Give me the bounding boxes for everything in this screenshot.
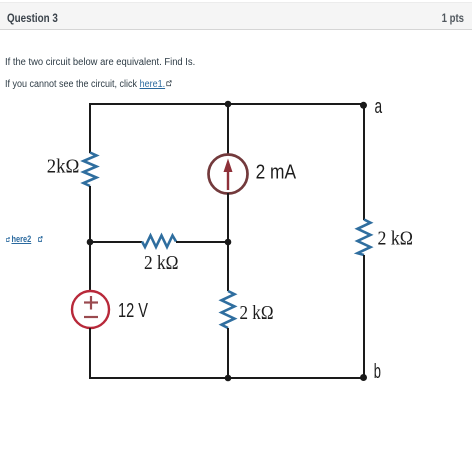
wire right lower xyxy=(363,255,365,378)
svg-text:2 kΩ: 2 kΩ xyxy=(240,303,274,324)
svg-text:12 V: 12 V xyxy=(118,299,148,322)
wire middle upper xyxy=(227,103,229,155)
resistor R4 2 kΩ (right) xyxy=(358,220,371,256)
wire mid horizontal right xyxy=(176,241,228,243)
svg-text:a: a xyxy=(375,95,383,118)
label 2 mA for I1 xyxy=(256,161,297,184)
label 2 kΩ for R4 xyxy=(378,228,414,249)
node junction top middle xyxy=(225,101,232,108)
node a junction xyxy=(360,102,367,109)
node junction mid center xyxy=(225,239,232,246)
wire bottom xyxy=(89,377,364,379)
node a label xyxy=(375,95,383,118)
resistor R1 2kΩ (left) xyxy=(84,153,97,187)
svg-text:2 kΩ: 2 kΩ xyxy=(378,228,414,249)
current source I1 xyxy=(209,155,248,194)
wire left lower xyxy=(89,328,91,379)
label 2 kΩ for R3 xyxy=(240,303,274,324)
voltage source V1 xyxy=(72,291,109,328)
svg-text:b: b xyxy=(374,360,381,383)
node junction mid left xyxy=(87,239,94,246)
node b label xyxy=(374,360,381,383)
svg-text:2 mA: 2 mA xyxy=(256,161,297,184)
resistor R2 2 kΩ (horizontal) xyxy=(142,236,176,248)
wire top xyxy=(90,103,364,105)
svg-text:2 kΩ: 2 kΩ xyxy=(144,253,179,274)
wire middle lower xyxy=(227,328,229,379)
wire middle center xyxy=(227,193,229,291)
wire mid horizontal left xyxy=(90,241,142,243)
label 12 V for V1 xyxy=(118,299,148,322)
node junction bottom middle xyxy=(225,375,232,382)
resistor R3 2 kΩ (middle lower) xyxy=(222,291,235,328)
wire left middle xyxy=(89,186,91,290)
label 2kΩ for R1 xyxy=(47,157,80,178)
wire left upper xyxy=(89,103,91,153)
wire right upper xyxy=(363,104,365,220)
label 2 kΩ for R2 xyxy=(144,253,179,274)
svg-text:2kΩ: 2kΩ xyxy=(47,157,80,178)
node b junction xyxy=(360,374,367,381)
